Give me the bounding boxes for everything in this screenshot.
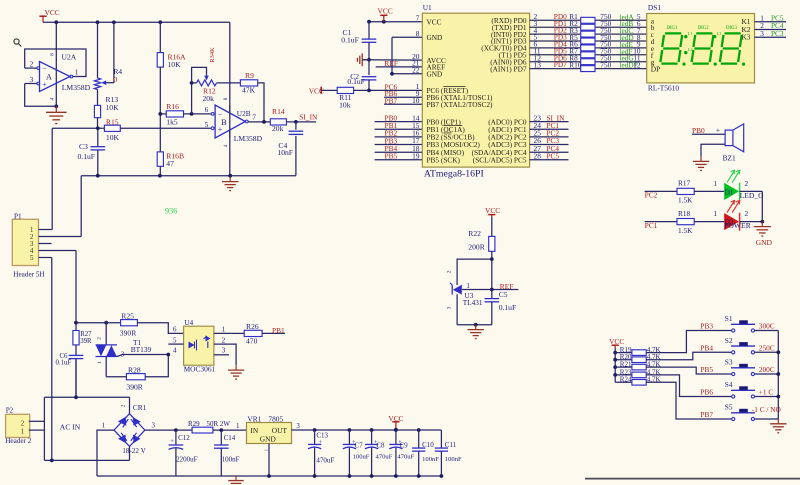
svg-text:3: 3 — [296, 422, 300, 430]
svg-text:5: 5 — [30, 254, 34, 262]
svg-text:BT139: BT139 — [131, 345, 152, 354]
svg-text:2: 2 — [745, 209, 749, 218]
svg-text:VCC: VCC — [485, 206, 500, 215]
svg-text:5: 5 — [205, 120, 209, 129]
svg-text:K3: K3 — [741, 33, 750, 42]
svg-text:PB1: PB1 — [272, 326, 285, 335]
svg-text:6: 6 — [173, 326, 177, 334]
svg-text:0.1uF: 0.1uF — [56, 360, 72, 367]
svg-text:19: 19 — [412, 152, 420, 161]
svg-text:18-22 V: 18-22 V — [122, 447, 146, 455]
svg-text:VCC: VCC — [427, 17, 442, 26]
svg-text:100nF: 100nF — [445, 456, 462, 463]
svg-text:C14: C14 — [224, 434, 236, 442]
svg-text:1: 1 — [102, 422, 106, 430]
svg-text:R15: R15 — [106, 118, 119, 127]
svg-text:4: 4 — [173, 347, 177, 355]
svg-text:100uF: 100uF — [353, 453, 370, 460]
svg-text:PB7: PB7 — [700, 410, 713, 419]
svg-text:1: 1 — [714, 179, 718, 188]
svg-text:L3: L3 — [717, 31, 722, 36]
svg-text:R34K: R34K — [209, 47, 216, 63]
svg-text:C5: C5 — [499, 290, 508, 299]
svg-text:TL431: TL431 — [463, 298, 483, 307]
svg-text:250C: 250C — [759, 343, 775, 352]
svg-text:D1: D1 — [725, 188, 734, 196]
svg-text:1: 1 — [222, 326, 226, 334]
svg-text:0: 0 — [114, 75, 118, 84]
svg-text:1: 1 — [97, 361, 103, 364]
svg-text:936: 936 — [165, 207, 177, 216]
svg-text:PB5: PB5 — [700, 365, 713, 374]
svg-text:R25: R25 — [121, 311, 134, 320]
svg-text:PB3: PB3 — [700, 322, 713, 331]
svg-text:C12: C12 — [178, 434, 190, 442]
svg-text:VCC: VCC — [609, 337, 624, 346]
svg-text:U1: U1 — [423, 3, 432, 12]
svg-text:100nF: 100nF — [222, 456, 240, 464]
svg-text:100nF: 100nF — [422, 456, 439, 463]
svg-text:5: 5 — [173, 336, 177, 344]
svg-text:C8: C8 — [376, 441, 385, 449]
svg-text:−: − — [218, 110, 223, 119]
svg-text:PB5 (SCK): PB5 (SCK) — [427, 156, 461, 165]
svg-text:R10: R10 — [569, 60, 582, 69]
svg-text:+: + — [218, 125, 223, 134]
svg-text:390R: 390R — [120, 329, 137, 338]
svg-text:GND: GND — [427, 70, 443, 79]
svg-text:DIG2: DIG2 — [698, 26, 710, 31]
svg-text:LED_G: LED_G — [740, 191, 765, 200]
svg-text:Header 2: Header 2 — [5, 437, 32, 445]
svg-text:ATmega8-16PI: ATmega8-16PI — [424, 168, 484, 179]
svg-text:10nF: 10nF — [277, 148, 293, 157]
svg-text:CR1: CR1 — [133, 403, 147, 412]
svg-text:1.5K: 1.5K — [678, 226, 693, 235]
svg-text:R29: R29 — [188, 420, 200, 428]
svg-text:20k: 20k — [272, 124, 284, 133]
svg-text:PC3: PC3 — [771, 29, 784, 38]
svg-text:+: + — [170, 438, 174, 445]
svg-text:+: + — [319, 439, 323, 446]
svg-text:R14: R14 — [272, 107, 285, 116]
svg-text:RL-T5610: RL-T5610 — [648, 84, 680, 93]
svg-text:Header 5H: Header 5H — [13, 270, 44, 278]
svg-text:300C: 300C — [759, 322, 775, 331]
svg-text:U4: U4 — [184, 318, 193, 327]
svg-text:20k: 20k — [203, 94, 215, 103]
svg-text:DP: DP — [651, 65, 660, 74]
svg-text:0.1uF: 0.1uF — [341, 35, 359, 44]
svg-text:22: 22 — [412, 66, 420, 75]
svg-text:AC IN: AC IN — [60, 423, 81, 432]
svg-text:+1 C: +1 C — [759, 388, 774, 397]
svg-text:BZ1: BZ1 — [723, 153, 736, 162]
svg-text:DS1: DS1 — [648, 3, 661, 12]
svg-text:2: 2 — [745, 179, 749, 188]
svg-text:47: 47 — [166, 159, 174, 168]
svg-text:PB7: PB7 — [385, 96, 398, 105]
svg-text:10K: 10K — [106, 103, 120, 112]
svg-text:C7: C7 — [355, 441, 364, 449]
svg-text:MOC3061: MOC3061 — [184, 365, 216, 374]
svg-text:(AIN1) PD7: (AIN1) PD7 — [490, 64, 527, 73]
svg-text:28: 28 — [534, 152, 542, 161]
svg-text:DIG1: DIG1 — [667, 26, 679, 31]
svg-text:2: 2 — [30, 59, 34, 68]
svg-text:6: 6 — [205, 105, 209, 114]
svg-text:IN: IN — [250, 426, 258, 435]
svg-text:2: 2 — [222, 336, 226, 344]
svg-text:39R: 39R — [80, 338, 92, 345]
svg-text:1: 1 — [75, 67, 79, 76]
svg-text:R17: R17 — [678, 179, 691, 188]
svg-text:470uF: 470uF — [397, 453, 414, 460]
svg-text:S2: S2 — [725, 336, 733, 345]
svg-text:GND: GND — [260, 435, 277, 444]
svg-text:S1: S1 — [725, 314, 733, 323]
svg-text:1: 1 — [21, 427, 25, 435]
svg-text:+: + — [42, 80, 47, 89]
svg-text:2: 2 — [121, 404, 127, 407]
svg-text:8: 8 — [50, 53, 56, 56]
svg-text:S3: S3 — [725, 358, 733, 367]
svg-text:R28: R28 — [128, 365, 141, 374]
svg-text:P2: P2 — [6, 407, 14, 415]
svg-text:R26: R26 — [246, 322, 259, 331]
svg-text:R18: R18 — [678, 209, 691, 218]
svg-text:VCC: VCC — [378, 6, 393, 15]
svg-text:12: 12 — [633, 60, 641, 69]
svg-text:0.1uF: 0.1uF — [499, 303, 517, 312]
svg-text:PC5: PC5 — [547, 152, 560, 161]
svg-text:LM358D: LM358D — [234, 134, 263, 143]
svg-text:7805: 7805 — [268, 415, 283, 424]
svg-text:470: 470 — [246, 336, 258, 345]
svg-text:3: 3 — [30, 75, 34, 84]
svg-text:0.1uF: 0.1uF — [347, 77, 365, 86]
svg-text:750: 750 — [600, 60, 611, 69]
svg-text:PB4: PB4 — [700, 343, 713, 352]
svg-text:L2: L2 — [688, 47, 693, 52]
svg-text:3: 3 — [222, 347, 226, 355]
svg-text:10k: 10k — [339, 101, 351, 110]
svg-text:2200uF: 2200uF — [176, 456, 198, 464]
svg-text:P1: P1 — [14, 212, 22, 220]
svg-text:390R: 390R — [126, 382, 143, 391]
svg-text:1: 1 — [466, 282, 470, 290]
svg-text:470uF: 470uF — [316, 456, 334, 464]
svg-text:POWER: POWER — [724, 221, 752, 230]
svg-text:GND: GND — [427, 33, 443, 42]
svg-text:REF: REF — [384, 59, 398, 68]
svg-text:VCC: VCC — [45, 8, 60, 17]
svg-text:PB5: PB5 — [385, 152, 398, 161]
svg-text:C11: C11 — [445, 441, 457, 449]
svg-text:LM358D: LM358D — [62, 83, 91, 92]
svg-text:3: 3 — [447, 306, 453, 309]
svg-text:R21: R21 — [620, 361, 632, 369]
svg-text:2: 2 — [97, 337, 103, 340]
svg-text:200C: 200C — [759, 365, 775, 374]
svg-text:4: 4 — [50, 97, 56, 100]
svg-text:1: 1 — [236, 422, 240, 430]
svg-text:-1 C / NO: -1 C / NO — [752, 405, 781, 414]
svg-text:A: A — [46, 73, 52, 82]
svg-text:−: − — [42, 64, 47, 73]
svg-text:10: 10 — [412, 96, 420, 105]
svg-text:L1: L1 — [688, 31, 693, 36]
svg-text:R16: R16 — [166, 102, 179, 111]
svg-text:47K: 47K — [242, 86, 256, 95]
svg-text:C3: C3 — [79, 142, 88, 151]
svg-text:+: + — [716, 125, 721, 134]
svg-text:1k5: 1k5 — [166, 118, 178, 127]
svg-text:2: 2 — [21, 419, 25, 427]
svg-text:3: 3 — [152, 422, 156, 430]
svg-text:0.1uF: 0.1uF — [78, 152, 96, 161]
svg-text:7: 7 — [416, 13, 420, 22]
svg-text:8: 8 — [223, 97, 229, 100]
svg-text:1.5K: 1.5K — [678, 196, 693, 205]
svg-text:R24: R24 — [620, 376, 632, 384]
svg-text:S4: S4 — [725, 380, 733, 389]
svg-text:VR1: VR1 — [247, 415, 261, 424]
svg-text:10K: 10K — [106, 133, 120, 142]
svg-text:200R: 200R — [468, 243, 485, 252]
svg-text:R9: R9 — [245, 71, 254, 80]
svg-text:U2B: U2B — [237, 109, 251, 118]
svg-text:7: 7 — [252, 112, 256, 121]
svg-text:8: 8 — [416, 29, 420, 38]
svg-text:(SCL/ADC5) PC5: (SCL/ADC5) PC5 — [473, 156, 527, 165]
svg-text:PB7 (XTAL2/TOSC2): PB7 (XTAL2/TOSC2) — [427, 100, 494, 109]
svg-text:PB6: PB6 — [700, 388, 713, 397]
svg-text:1: 1 — [714, 209, 718, 218]
svg-text:4: 4 — [223, 144, 229, 147]
svg-text:R22: R22 — [468, 229, 481, 238]
svg-text:VCC: VCC — [388, 414, 403, 423]
svg-text:PD7: PD7 — [554, 60, 567, 69]
svg-text:50R 2W: 50R 2W — [207, 420, 231, 428]
svg-text:SI_IN: SI_IN — [299, 113, 318, 122]
svg-text:U2A: U2A — [62, 52, 77, 61]
svg-text:3: 3 — [760, 29, 764, 38]
svg-text:470uF: 470uF — [376, 453, 393, 460]
svg-text:10K: 10K — [168, 60, 182, 69]
svg-text:2: 2 — [447, 270, 453, 273]
svg-text:+: + — [398, 440, 402, 446]
svg-text:DIG3: DIG3 — [726, 26, 738, 31]
svg-text:S5: S5 — [725, 403, 733, 412]
svg-text:GND: GND — [756, 238, 773, 247]
svg-text:C10: C10 — [422, 441, 434, 449]
